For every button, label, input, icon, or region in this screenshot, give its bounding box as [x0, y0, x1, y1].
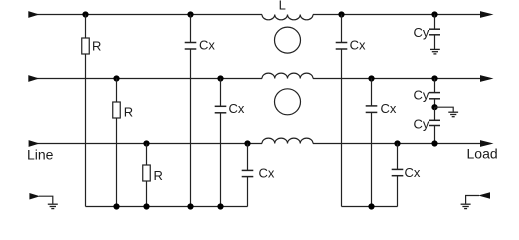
wire line1 right: [313, 14, 481, 16]
svg-text:Cx: Cx: [259, 166, 275, 181]
terminal arrow line2 right: [480, 75, 494, 82]
node junction line1-Cx4: [338, 11, 344, 17]
node bus-Cx1: [187, 203, 193, 209]
capacitor Cx2: [215, 106, 227, 113]
wire Cx4 top: [341, 15, 343, 43]
wire R2 top: [116, 79, 118, 103]
resistor R3: [143, 165, 151, 181]
wire Cx3 bottom: [247, 177, 249, 207]
wire bottom bus left: [86, 206, 248, 208]
wire Cx2 top: [220, 79, 222, 107]
svg-text:Cx: Cx: [199, 37, 215, 52]
wire R3 top: [146, 144, 148, 166]
node junction line1-Cy1: [431, 11, 437, 17]
label Line: [27, 147, 54, 163]
ground Cy1: [430, 49, 440, 54]
wire Cy mid to ground: [435, 107, 453, 112]
svg-text:R: R: [92, 39, 101, 54]
wire Cx2 bottom: [220, 113, 222, 207]
wire bottom bus right: [342, 206, 398, 208]
label R2: [124, 105, 133, 120]
capacitor Cx4: [336, 43, 348, 50]
ground right: [461, 204, 471, 208]
label Cy3: [414, 117, 430, 132]
inductor L winding 1: [262, 15, 313, 20]
node junction line2-Cy2: [431, 75, 437, 81]
label Cy1: [414, 25, 430, 40]
inductor L winding 3: [262, 138, 313, 143]
wire Cy3 bottom: [434, 126, 436, 144]
svg-text:L: L: [279, 0, 286, 13]
capacitor Cx6: [392, 169, 404, 175]
wire line3 right: [313, 143, 481, 145]
wire Cx6 bottom: [397, 176, 399, 207]
node bus-Cx2: [217, 203, 223, 209]
svg-text:Cx: Cx: [229, 101, 245, 116]
wire Cx1 top: [190, 15, 192, 43]
terminal arrow ground left: [29, 193, 40, 200]
ground left: [48, 204, 58, 208]
node junction line2-Cx2: [217, 75, 223, 81]
label Cx3: [259, 166, 275, 181]
svg-text:Line: Line: [27, 147, 54, 163]
wire line2 right: [313, 78, 481, 80]
wire Cy3 top: [434, 107, 436, 120]
svg-text:R: R: [154, 168, 163, 183]
svg-text:Cx: Cx: [350, 37, 366, 52]
terminal arrow line2 left: [28, 75, 39, 82]
svg-text:Cy: Cy: [414, 88, 430, 103]
node junction line1-Cx1: [187, 11, 193, 17]
node Cy midpoint: [431, 104, 437, 110]
node junction line3-Cx3: [244, 140, 250, 146]
label Cy2: [414, 88, 430, 103]
capacitor Cx1: [185, 43, 197, 50]
label Cx5: [381, 101, 397, 116]
wire R3 bottom: [146, 181, 148, 207]
node bus-R2: [113, 203, 119, 209]
terminal arrow ground right: [478, 192, 490, 199]
wire Cx6 top: [397, 144, 399, 170]
wire Cy1 top: [434, 15, 436, 30]
terminal arrow line1 right: [480, 11, 494, 18]
wire R1 top: [85, 15, 87, 39]
terminal arrow line3 left: [29, 140, 40, 147]
node junction line3-R3: [143, 140, 149, 146]
wire line1 left: [30, 14, 262, 16]
node bus-Cx5: [368, 203, 374, 209]
wire Cy2 top: [434, 79, 436, 93]
svg-text:Load: Load: [467, 146, 498, 162]
node junction line1-R1: [82, 11, 88, 17]
svg-text:Cy: Cy: [414, 25, 430, 40]
svg-text:Cx: Cx: [381, 101, 397, 116]
label Cx2: [229, 101, 245, 116]
capacitor Cx3: [242, 170, 254, 176]
resistor R1: [82, 38, 90, 54]
resistor R2: [113, 102, 121, 118]
wire Cx4 bottom: [341, 49, 343, 207]
wire Cx5 bottom: [371, 112, 373, 206]
svg-text:R: R: [124, 105, 133, 120]
node junction line2-Cx5: [368, 75, 374, 81]
wire R2 bottom: [116, 118, 118, 207]
inductor L winding 2: [262, 73, 313, 78]
label Cx1: [199, 37, 215, 52]
label R3: [154, 168, 163, 183]
wire line2 left: [30, 78, 262, 80]
label Load: [467, 146, 498, 162]
choke core circle top: [275, 27, 301, 53]
ground Cy mid: [448, 112, 458, 117]
label Cx6: [405, 165, 421, 180]
wire Cx3 top: [247, 144, 249, 171]
label L: [279, 0, 286, 13]
label Cx4: [350, 37, 366, 52]
capacitor Cy3: [429, 120, 440, 125]
wire Cx5 top: [371, 79, 373, 106]
node junction line3-Cx6: [394, 140, 400, 146]
node junction line2-R2: [113, 75, 119, 81]
wire line3 left: [30, 143, 262, 145]
terminal arrow line3 right: [480, 140, 494, 147]
capacitor Cy1: [429, 29, 440, 35]
wire Cy2 bottom: [434, 99, 436, 107]
capacitor Cy2: [429, 93, 440, 99]
capacitor Cx5: [366, 106, 378, 113]
wire R1 bottom: [85, 54, 87, 207]
wire Cy1 bottom: [434, 35, 436, 49]
wire ground left: [39, 196, 53, 203]
terminal arrow line1 left: [28, 11, 39, 18]
svg-text:Cy: Cy: [414, 117, 430, 132]
node junction line3-Cy3: [431, 140, 437, 146]
svg-text:Cx: Cx: [405, 165, 421, 180]
label R1: [92, 39, 101, 54]
choke core circle bottom: [275, 89, 301, 115]
wire Cx1 bottom: [190, 49, 192, 207]
node bus-R3: [143, 203, 149, 209]
wire ground right: [466, 196, 479, 204]
